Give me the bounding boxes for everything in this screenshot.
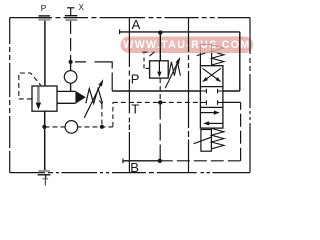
solenoid top box [200, 44, 211, 53]
port A tick [119, 30, 121, 35]
node B-line junction [158, 159, 162, 163]
relief valve poppet triangle [75, 91, 85, 104]
svg-text:A: A [132, 17, 141, 32]
reducing valve internal arrow [158, 61, 160, 72]
wire A line [120, 32, 240, 91]
main valve poppet arrow [36, 103, 41, 110]
directional valve parallel arrows (bottom position) [200, 112, 216, 114]
relief valve adjustment arrow [84, 84, 101, 118]
dashed T channel wire [113, 101, 200, 103]
port P (top) [38, 3, 50, 20]
solenoid bottom box [201, 130, 212, 152]
port B tick [122, 159, 124, 164]
reducing valve spring [169, 62, 181, 76]
port T (bottom) [38, 171, 51, 188]
directional valve body [200, 66, 223, 128]
node T-line junction [158, 100, 162, 104]
section divider line 2 [188, 18, 190, 173]
solenoid bottom diagonal [194, 137, 212, 144]
pilot control dashed box (spring chamber) [19, 73, 41, 99]
main valve internal seat line [37, 87, 40, 104]
svg-text:X: X [79, 3, 85, 12]
svg-text:T: T [42, 177, 48, 188]
solenoid top diagonal [205, 51, 211, 53]
pilot wire X to right section P (dashed) [75, 62, 113, 91]
wire B line [123, 160, 160, 162]
svg-text:P: P [41, 3, 47, 13]
wire main valve to T port [44, 111, 46, 171]
relief valve spring [86, 89, 103, 104]
port X (top) [65, 3, 85, 20]
orifice circle 2 (drain line) [65, 121, 78, 134]
node T junction [42, 125, 46, 129]
relief drain dashed wire [101, 105, 103, 127]
wire P supply to directional valve [112, 90, 200, 92]
wire X port down (pilot) [70, 21, 72, 62]
svg-text:WWW.TAU-RUS.COM: WWW.TAU-RUS.COM [123, 39, 250, 51]
wire A junction to reducing valve [159, 33, 161, 61]
wire P port to main valve [44, 21, 46, 86]
reducing valve drain dashed wire [159, 78, 161, 102]
wire junction to orifice and valve [70, 62, 72, 92]
svg-text:B: B [130, 160, 139, 175]
pressure reducing valve square [150, 61, 169, 78]
svg-text:P: P [131, 72, 140, 87]
dashed drain riser to T channel [112, 102, 114, 126]
directional valve crossed arrows (top position) [205, 68, 221, 80]
section divider line 1 [128, 18, 130, 173]
svg-text:T: T [131, 102, 139, 117]
reducing valve pilot dashed wire [144, 54, 150, 69]
dashed drain manifold wire [44, 126, 113, 128]
directional valve blocked center ports [200, 89, 223, 105]
reducing valve adjustment arrow [165, 60, 179, 88]
spring bottom [211, 128, 224, 148]
manifold outer frame [10, 18, 250, 173]
spring top [212, 45, 224, 53]
node A junction [158, 30, 162, 34]
orifice circle 1 (X line) [64, 71, 77, 84]
relief drain stub [99, 100, 102, 104]
channel to relief poppet [57, 91, 75, 103]
main cartridge valve body [32, 86, 57, 111]
node drain junction [100, 125, 104, 129]
watermark [121, 37, 254, 54]
drain wire down to B line [159, 103, 161, 161]
node X junction [69, 60, 73, 64]
